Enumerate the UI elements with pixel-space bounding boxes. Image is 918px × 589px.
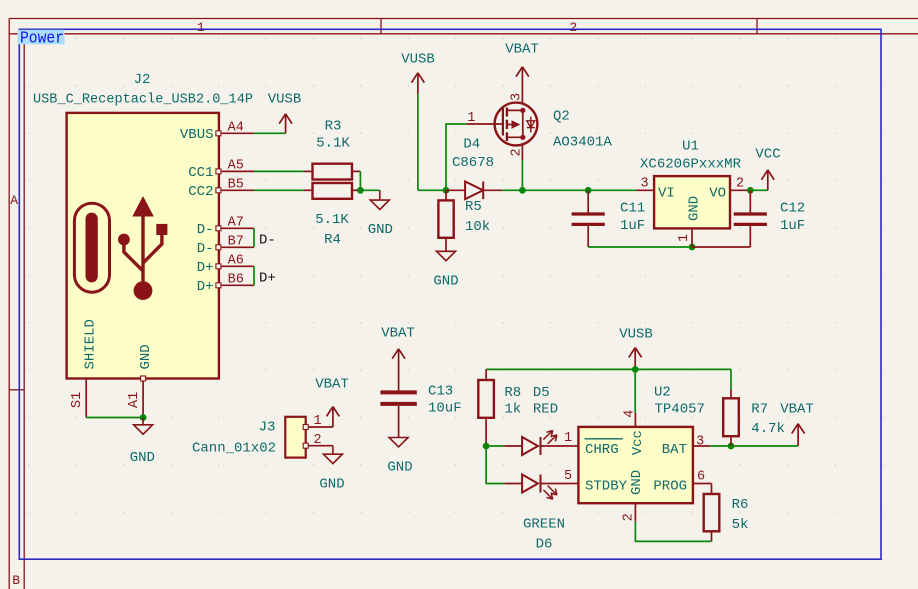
svg-text:VCC: VCC [755,147,780,163]
svg-text:1: 1 [467,111,475,126]
wire gate riser [446,124,466,190]
svg-text:VO: VO [709,185,726,201]
svg-text:S1: S1 [70,392,85,408]
J2 pin A6 [216,254,254,269]
regulator U1 XC6206PxxxMR [636,176,748,247]
wire S1 to A1 GND [86,417,143,419]
svg-text:RED: RED [533,402,558,418]
junction U1 GND bottom [689,244,696,251]
junction at A1 GND [140,414,147,421]
wire CC1 to R3 [254,170,304,172]
svg-text:10k: 10k [465,219,490,235]
svg-text:GND: GND [387,460,412,476]
svg-text:GREEN: GREEN [523,517,565,533]
svg-text:VI: VI [658,185,675,201]
svg-text:D+: D+ [197,260,214,276]
svg-text:R3: R3 [325,119,342,135]
svg-text:AO3401A: AO3401A [553,135,612,151]
wire D4 to Q2 source [502,189,522,191]
svg-text:VUSB: VUSB [401,52,435,68]
svg-text:D6: D6 [536,537,553,553]
svg-text:B6: B6 [228,273,244,288]
svg-text:5: 5 [564,469,572,484]
svg-text:XC6206PxxxMR: XC6206PxxxMR [640,157,742,173]
svg-text:C13: C13 [428,384,453,400]
capacitor C11 [572,190,646,247]
wire rail to C11 [522,189,588,191]
power VCC [755,147,780,191]
svg-text:D-: D- [197,241,214,257]
junction VUSB/R5/D4 [443,187,450,194]
ground at C13 [387,438,412,476]
wire junction to GND [360,189,379,191]
resistor R3 [304,119,361,180]
wire D+ bracket [253,266,255,285]
J2 pin B5 [216,178,254,193]
wire CC2 to R4 [254,189,304,191]
resistor R6 [704,484,749,542]
svg-text:VBAT: VBAT [381,326,415,342]
svg-text:5.1K: 5.1K [316,136,350,152]
J3 pin 1 [303,414,333,430]
svg-text:U1: U1 [682,139,699,155]
svg-text:TP4057: TP4057 [655,402,705,418]
svg-text:VBAT: VBAT [315,377,349,393]
svg-text:5k: 5k [732,517,749,533]
svg-text:J2: J2 [134,72,151,88]
svg-text:A: A [10,193,18,208]
svg-text:Vcc: Vcc [630,430,646,455]
ground at R5 [433,251,458,289]
svg-text:CC1: CC1 [188,165,213,181]
J2 pin A1 GND [127,376,146,418]
svg-text:A6: A6 [228,254,244,269]
transistor Q2 AO3401A [466,93,537,160]
connector J3 Cann_01x02 [285,417,305,458]
svg-text:1uF: 1uF [780,218,805,234]
svg-text:Cann_01x02: Cann_01x02 [192,441,276,457]
svg-text:D4: D4 [463,136,480,152]
svg-text:GND: GND [368,222,393,238]
connector J2 USB_C_Receptacle_USB2.0_14P [67,113,219,379]
svg-text:CHRG: CHRG [585,442,619,458]
svg-text:Power: Power [20,28,64,47]
ground at J2 [130,418,155,467]
wire VUSB rail [486,368,731,370]
svg-text:GND: GND [138,344,154,369]
junction R7/BAT [728,443,735,450]
power VUSB at charger [619,327,653,370]
svg-text:1uF: 1uF [620,218,645,234]
svg-text:GND: GND [319,477,344,493]
svg-text:2: 2 [510,148,525,156]
power VBAT at C13 [381,326,415,391]
svg-text:U2: U2 [654,385,671,401]
junction VO/C12 [747,187,754,194]
wire to D5 [486,445,504,447]
junction R3/R4 [357,187,364,194]
svg-text:GND: GND [130,450,155,466]
svg-text:Q2: Q2 [553,109,570,125]
svg-text:CC2: CC2 [188,184,213,200]
svg-text:A1: A1 [127,392,142,408]
resistor R4 [304,183,361,248]
charger U2 TP4057 [564,410,712,522]
wire A4 to VUSB [254,132,286,134]
svg-text:VBUS: VBUS [180,127,214,143]
svg-text:D-: D- [259,233,276,249]
wire bottom U1 GND to C12 [692,246,750,248]
svg-text:4: 4 [623,410,638,418]
svg-text:C8678: C8678 [452,155,494,171]
svg-text:VBAT: VBAT [780,402,814,418]
diode D4 C8678 [446,136,502,199]
wire bottom C11 to U1 GND [588,246,692,248]
svg-text:5.1K: 5.1K [315,212,349,228]
svg-text:D+: D+ [259,271,276,287]
svg-text:R8: R8 [504,385,521,401]
svg-text:D+: D+ [197,279,214,295]
svg-text:PROG: PROG [653,478,687,494]
LED D6 [504,469,572,499]
svg-text:A7: A7 [228,216,244,231]
svg-text:SHIELD: SHIELD [82,319,98,369]
J3 pin 2 [303,433,333,448]
svg-text:R4: R4 [324,232,341,248]
junction R8/D5/D6 [483,443,490,450]
J2 pin S1 SHIELD [70,379,86,418]
svg-text:J3: J3 [259,420,276,436]
svg-text:VUSB: VUSB [268,92,302,108]
J2 pin A7 [216,216,254,231]
svg-text:D5: D5 [533,385,550,401]
J2 pin B6 [216,273,254,288]
ground at J3 [319,446,344,493]
power VUSB upper left [401,52,435,95]
power VBAT at J3 [315,377,349,428]
wire rail to R7 [730,369,732,390]
svg-text:VUSB: VUSB [619,327,653,343]
wire VUSB to D4 [418,189,446,191]
svg-text:1: 1 [677,234,692,242]
LED D5 [504,431,572,456]
power VUSB at A4 [268,92,302,134]
svg-text:C11: C11 [620,201,645,217]
wire C11 to U1 pin3 [588,189,636,191]
svg-text:1k: 1k [504,402,521,418]
svg-text:B7: B7 [228,235,244,250]
power VBAT at BAT [780,402,814,447]
svg-text:R6: R6 [732,497,749,513]
svg-text:4.7k: 4.7k [751,421,785,437]
svg-text:1: 1 [197,20,205,35]
junction C11 [585,187,592,194]
junction VUSB rail [632,366,639,373]
svg-text:GND: GND [687,196,703,221]
wire to D6 [486,446,504,484]
wire D- bracket [253,228,255,247]
svg-text:C12: C12 [780,201,805,217]
junction Q2 source [519,187,526,194]
svg-text:A5: A5 [228,159,244,174]
svg-text:B: B [12,573,20,588]
svg-text:USB_C_Receptacle_USB2.0_14P: USB_C_Receptacle_USB2.0_14P [33,93,253,108]
J2 pin A4 [216,121,254,136]
wire rail to U2 Vcc [634,369,636,413]
svg-text:2: 2 [313,433,321,448]
svg-text:10uF: 10uF [428,401,462,417]
svg-text:GND: GND [433,274,458,290]
resistor R7 [723,390,785,446]
svg-text:B5: B5 [228,178,244,193]
wire R3 to R4 [359,171,361,190]
J2 pin B7 [216,235,254,250]
svg-text:6: 6 [697,470,705,485]
svg-text:3: 3 [640,177,648,192]
svg-text:1: 1 [313,414,321,429]
wire BAT [710,445,798,447]
wire VUSB down [417,94,419,190]
svg-text:R7: R7 [751,402,768,418]
capacitor C12 [734,190,806,247]
svg-text:D-: D- [197,222,214,238]
svg-text:R5: R5 [465,199,482,215]
resistor R8 [478,369,521,446]
svg-text:2: 2 [569,20,577,35]
wire VO to VCC [750,189,768,191]
capacitor C13 [380,384,461,438]
svg-text:2: 2 [736,177,744,192]
svg-text:VBAT: VBAT [505,42,539,58]
wire U2 GND to R6 [635,522,711,542]
resistor R5 [438,190,490,251]
J2 pin A5 [216,159,254,174]
svg-text:BAT: BAT [662,442,687,458]
svg-text:1: 1 [564,431,572,446]
ground at R4 [368,190,393,238]
wire Q2 source down [521,160,523,190]
power VBAT at Q2 [505,42,539,97]
svg-text:GND: GND [629,470,645,495]
svg-text:3: 3 [696,435,704,450]
svg-text:A4: A4 [228,121,244,136]
svg-text:2: 2 [621,513,636,521]
svg-text:STDBY: STDBY [585,478,628,494]
